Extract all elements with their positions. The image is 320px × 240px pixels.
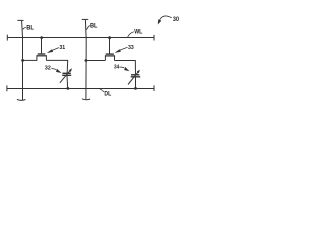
svg-text:BL: BL (26, 25, 34, 31)
label 32 (45, 66, 62, 74)
junction node BL1 source rail (21, 59, 24, 62)
bit line BL2 vertical wire (82, 19, 90, 99)
label 30 with curved arrow (158, 16, 180, 25)
label 33 (115, 45, 134, 53)
transistor 31 (36, 54, 47, 60)
junction node DL capacitor 32 (66, 87, 69, 90)
wire data line DL horizontal (7, 85, 154, 91)
transistor 33 gate lead wire (109, 38, 111, 54)
junction node WL gate 31 (40, 36, 43, 39)
capacitor 32 arrow head (69, 68, 72, 72)
wire source rail from BL1 to transistor 31 (23, 59, 38, 61)
transistor 33 (105, 54, 115, 60)
capacitor 34 arrow head (137, 70, 140, 74)
junction node WL gate 33 (108, 36, 111, 39)
junction node DL capacitor 34 (134, 87, 137, 90)
label WL (128, 29, 143, 37)
svg-text:31: 31 (59, 45, 65, 51)
svg-text:DL: DL (104, 92, 111, 98)
label 34 (114, 65, 130, 72)
wire word line WL horizontal (7, 35, 154, 41)
wire capacitor 34 to DL (135, 77, 137, 88)
svg-text:33: 33 (128, 45, 134, 51)
capacitor 34 (128, 71, 140, 84)
label BL2 (87, 23, 98, 30)
capacitor 32 (60, 70, 71, 83)
svg-text:BL: BL (90, 23, 98, 29)
svg-text:34: 34 (114, 65, 119, 71)
wire source rail from BL2 to transistor 33 (86, 60, 105, 62)
label 31 (47, 45, 65, 53)
transistor 31 gate lead wire (41, 38, 43, 54)
svg-text:32: 32 (45, 66, 51, 72)
svg-text:WL: WL (134, 29, 142, 35)
label DL (100, 89, 112, 98)
junction node BL2 source rail (85, 59, 88, 62)
wire from transistor 31 drain to capacitor 32 (46, 60, 67, 72)
wire from transistor 33 drain to capacitor 34 (115, 61, 136, 75)
svg-text:30: 30 (173, 16, 179, 23)
label BL1 (23, 25, 34, 31)
bit line BL1 vertical wire (17, 20, 26, 100)
wire capacitor 32 to DL (66, 76, 69, 89)
